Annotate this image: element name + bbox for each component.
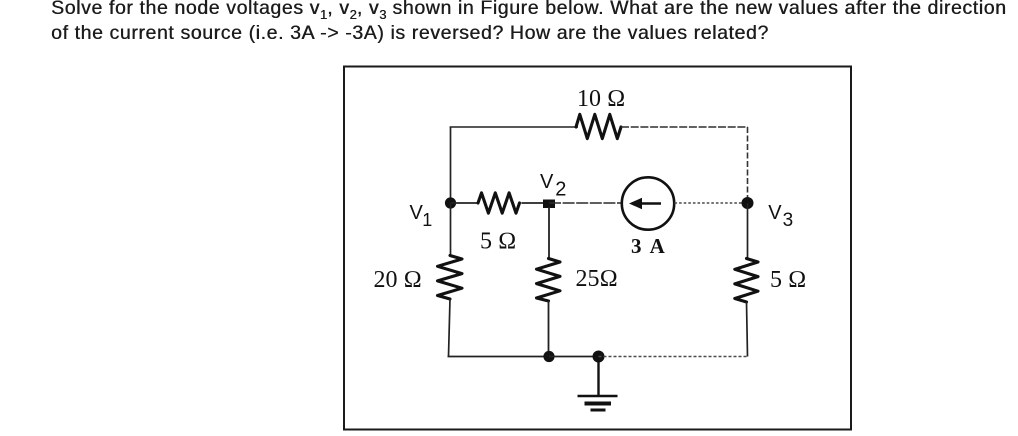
node V1 (445, 197, 456, 208)
label V1 (410, 202, 433, 230)
label V2 (540, 171, 566, 201)
svg-text:20 Ω: 20 Ω (374, 267, 422, 293)
svg-text:25Ω: 25Ω (576, 266, 618, 292)
wire: resistor 5 ohm to node V2 (521, 202, 549, 204)
wire: left vertical from top rail to node V1 (450, 127, 452, 204)
svg-text:3: 3 (783, 210, 794, 231)
wire: resistor 25 ohm to bottom node (548, 301, 550, 356)
label 25 Ohm (576, 266, 618, 292)
wire: bottom rail left segment (448, 356, 550, 358)
label 20 Ohm (374, 267, 422, 293)
resistor 10 ohm (top, horizontal) (576, 114, 621, 138)
wire: top rail right segment (621, 126, 748, 128)
figure frame (344, 67, 851, 430)
svg-text:V: V (768, 202, 782, 224)
svg-text:5 Ω: 5 Ω (480, 229, 516, 255)
wire: node V2 to current source (549, 202, 622, 204)
label 3 A (631, 234, 667, 258)
wire: node V3 down to resistor 5 ohm right (747, 203, 749, 258)
node: bottom of 25 ohm (543, 351, 554, 362)
svg-text:10 Ω: 10 Ω (577, 86, 625, 112)
node: ground junction (593, 351, 605, 363)
wire: current source to node V3 (675, 202, 748, 204)
current source arrow (pointing left) (629, 198, 661, 210)
ground (578, 360, 618, 410)
svg-text:1: 1 (422, 210, 432, 230)
label V3 (768, 202, 793, 231)
label 5 Ohm (horizontal resistor) (480, 229, 516, 255)
wire: resistor 5 ohm right to bottom rail (747, 302, 748, 357)
svg-text:2: 2 (555, 179, 566, 201)
resistor 20 ohm (left, vertical) (438, 256, 463, 300)
current source 3A (circle) (622, 177, 674, 229)
label 10 Ohm (577, 86, 625, 112)
wire: top rail left segment (450, 126, 578, 128)
svg-text:5 Ω: 5 Ω (770, 267, 806, 293)
resistor 25 ohm (middle, vertical) (537, 259, 561, 302)
wire: resistor 20 ohm to bottom rail (449, 299, 451, 356)
wire: right vertical from top rail to node V3 (747, 127, 749, 203)
resistor 5 ohm (right, vertical) (735, 259, 758, 303)
wire: bottom rail right segment (599, 356, 748, 358)
node V2 (543, 200, 555, 209)
wire: node V2 down to resistor 25 ohm (548, 207, 550, 258)
question text (51, 0, 1007, 46)
svg-text:V: V (540, 171, 554, 193)
wire: bottom rail middle segment (549, 356, 598, 358)
wire: node V1 down to resistor 20 ohm (450, 203, 452, 256)
wire: node V1 to resistor 5 ohm (451, 202, 478, 204)
node V3 (742, 197, 754, 209)
svg-text:3 A: 3 A (631, 234, 667, 258)
resistor 5 ohm (horizontal) (478, 193, 520, 213)
label 5 Ohm (right resistor) (770, 267, 806, 293)
